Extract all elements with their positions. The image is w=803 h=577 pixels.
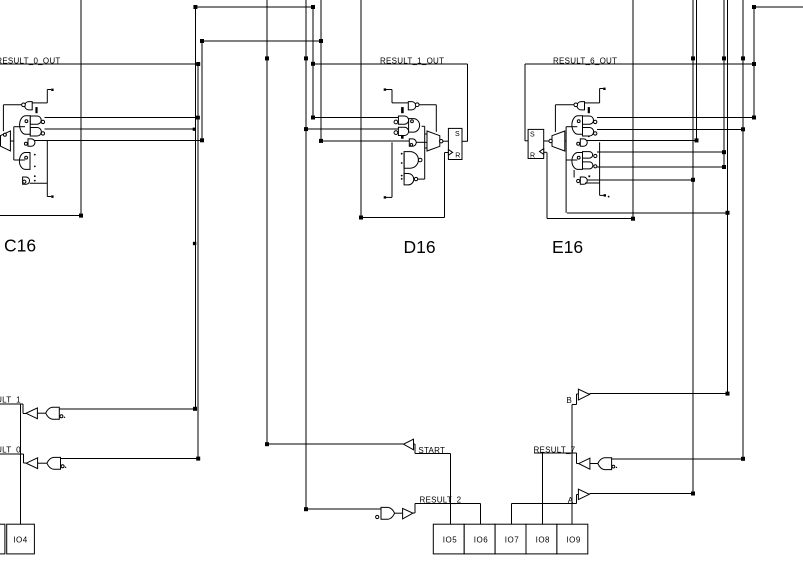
wire RESULT_2 jog vertical [414,503,416,513]
wire START row y=444.2 [267,443,404,445]
wire E16 G1 input [585,102,600,104]
svg-text:D16: D16 [404,237,436,257]
wire RESULT_6_OUT horizontal y=64 [525,63,754,65]
wire C16 G1 input [32,102,47,104]
IO8 pad box [526,524,557,554]
D16 mux [427,131,440,151]
svg-text:IO8: IO8 [536,536,550,545]
vertical wire x=467.5 D16 S output riser [467,64,469,141]
wire START label stub [414,443,416,445]
wire D16 LG2 output [418,178,425,180]
wire buffer to OR RESULT_1 [37,412,45,414]
wire E16 row6 output y=179.8 [585,179,693,181]
wire C16 row3 output y=140.3 [31,139,202,141]
OR gate RESULT_7 row [598,458,612,470]
E16 row3 gate [580,139,587,146]
wire RESULT_1 buffer jog [22,404,24,413]
C16 row6 gate [23,177,30,184]
wire C16 row2 output y=129.1 [45,128,196,130]
vertical wire x=525 E16 S input riser [524,64,526,141]
wire horizontal y=41 between C16 and D16 [202,40,321,42]
bottom-left gates [26,389,617,519]
E16 bottom bracket [599,142,601,195]
wire E16 R output [544,151,547,153]
E16 lower big gate [572,153,583,170]
svg-text:RESULT_1: RESULT_1 [0,396,21,405]
wire E16 G1 to mux vertical [554,105,556,132]
C16 inverter G1 [25,102,33,110]
vertical wire x=81 C16 right border [80,0,82,216]
D16 rows to mux vertical [424,126,426,179]
wire OR to buffer RESULT_2 [395,512,403,514]
IO7 pad box [495,524,526,554]
vertical wire x=724 [723,0,725,167]
wire D16 S output [462,140,468,142]
svg-text:IO6: IO6 [474,536,488,545]
svg-text:RESULT_0_OUT: RESULT_0_OUT [0,56,61,65]
C16 mux stub [10,140,13,142]
wire D16 big gate output [422,125,425,127]
wire top-right horizontal y=7 to edge [754,6,803,8]
wire IO7 link y=503.3 [511,502,576,504]
D16 LG1 stub dots [401,153,403,155]
E16 S/R flip-flop box [528,129,544,158]
E16 top bracket [599,89,601,103]
wire A buffer input jog [576,495,578,504]
wire RESULT_7 to IO8 riser [542,453,544,524]
C16 row3 gate [28,139,35,146]
svg-text:IO5: IO5 [443,536,457,545]
D16 inverter G1 [408,102,416,110]
buffer RESULT_0 row (tip left) [26,458,37,469]
vertical wire x=321 [320,0,322,141]
C16 top bracket [46,90,48,103]
vertical wire x=195 [194,7,196,409]
svg-text:R: R [530,153,535,160]
buffer RESULT_1 row (tip left) [26,408,37,419]
vertical wire x=743 [742,0,744,459]
OR RESULT_1 lower input bubble [60,415,63,418]
E16 lower-left vertical [573,170,575,178]
wire B buffer output y=393.6 [590,393,728,395]
svg-text:IO9: IO9 [566,536,580,545]
svg-text:C16: C16 [4,236,36,256]
E16 row4 gate [583,152,593,159]
wire C16 row1 output y=117.7 [45,117,200,119]
wire E16 S input [525,140,528,142]
OR gate RESULT_2 row [381,507,395,519]
svg-text:R: R [455,153,460,160]
E16 row6 gate [580,177,587,184]
vertical wire x=313 [312,7,314,118]
wire D16 row1 input y=117.7 [313,117,398,119]
IO5 pad box [433,524,464,554]
C16 rows big gate [20,116,31,135]
D16 rows big gate [409,119,420,133]
D16 top bracket [384,88,386,90]
E16 inner vertical to bottom [565,127,567,213]
wire D16 mux to box [443,140,449,142]
C16 row1 gate [30,116,41,124]
wire D16 row3 input y=140.6 [321,140,409,142]
wire RESULT_2 row input y=508.3 [306,508,381,510]
wire RESULT_1 label underline [0,403,23,405]
E16 row5 gate [583,162,593,169]
D16 I-bar [401,107,404,113]
C16 inner vertical [13,127,15,160]
vertical wire x=727.5 [727,0,729,394]
D16 lower gate LG1 [404,152,418,169]
C16 LG1 stub dots [34,154,36,156]
wire RESULT_1_OUT horizontal y=64 [313,63,468,65]
vertical wire x=198 [197,64,199,459]
C16 bottom bracket [46,140,48,196]
svg-text:RESULT_0: RESULT_0 [0,445,21,454]
OR gate RESULT_0 row [47,457,61,469]
svg-text:S: S [530,132,535,139]
D16 I-bar2 [401,135,404,139]
wire C16 row6 output [30,182,48,184]
wire E16 row4 output y=152.2 [597,151,724,153]
wire RESULT_7 jog stub [576,463,578,465]
wire D16 row2 input y=129.1 [306,128,398,130]
wire B buffer input jog [576,394,578,404]
buffer A [578,489,589,499]
wire D16 R riser x=444.6 [444,153,446,218]
wire RESULT_7 label y=452.9 [534,452,577,454]
wire RESULT_0 buffer jog [23,454,25,463]
wire RESULT_0_OUT horizontal y=64 [0,63,198,65]
wire D16 bottom border y=217.5 [361,217,445,219]
wire START to IO5 riser [450,453,452,524]
buffer B [578,389,589,400]
wire E16 row3 output y=140.4 [585,139,697,141]
wire RESULT_0 row input y=458.6 [61,458,199,460]
E16 row1 gate [583,116,594,124]
wire buffer to OR RESULT_7 [590,463,598,465]
net labels [0,56,617,505]
wire E16 R riser x=546.8 [546,152,548,218]
wire RESULT_2 to IO6 riser [480,503,482,524]
wire RESULT_1/RESULT_0 to IO4 vertical x=20.7 [20,404,22,524]
OR gate RESULT_1 row [46,407,60,419]
svg-text:A: A [568,496,574,505]
vertical wire x=754 [753,7,755,118]
wire net RESULT_1 top horizontal y=7 [195,6,313,8]
C16 row2 gate [30,128,41,137]
D16 LG2 stub dots [401,175,403,177]
D16 S/R flip-flop box [448,128,462,159]
wire START label y=453.4 [415,452,451,454]
vertical wire x=306 [305,0,307,509]
OR RESULT_2 lower input bubble [376,515,379,518]
E16 mux [552,131,565,151]
E16 mux stub [565,140,566,142]
wire C16 big gate output [14,126,25,128]
svg-text:RESULT_1_OUT: RESULT_1_OUT [380,56,444,65]
C16 I-bar [35,107,37,113]
buffer RESULT_7 row (tip left) [579,458,590,469]
IO4 pad box [7,524,35,554]
IO9 pad box [557,524,588,554]
wire RESULT_1 row input y=408.5 [59,408,195,410]
CLUSTER E16 [525,88,609,213]
buffer RESULT_2 [403,508,413,519]
wire IO7 riser x=511.4 [510,503,512,524]
wire C16 bottom border y=215.6 [0,215,81,217]
E16 rows big gate [572,116,583,135]
wire START label jog vertical [414,444,416,453]
C16 row6 stub dots [34,175,36,177]
D16 row1 gate [394,120,398,124]
vertical wire x=267 [266,0,268,444]
wire C16 G1 output [3,104,21,106]
svg-text:START: START [418,446,445,455]
IO3 pad box (clipped) [0,524,5,554]
wire E16 big gate output [566,126,577,128]
wire buffer to OR RESULT_0 [38,462,47,464]
D16 row2 gate [394,131,398,135]
IO6 pad box [464,524,495,554]
OR RESULT_0 lower input bubble [61,465,64,468]
E16 small marks [588,136,590,138]
wire D16 G1 output [419,104,436,106]
wire RESULT_2 buffer stub [413,512,415,514]
wire E16 long bottom y=212.8 [567,212,728,214]
OR RESULT_7 lower input bubble [612,465,615,468]
svg-text:RESULT_2: RESULT_2 [420,496,462,505]
D16 row3 gate [409,139,416,146]
vertical wire x=633 E16 right border [632,0,634,219]
C16 mux [1,131,11,151]
wire RESULT_7 row input y=458.5 [612,458,743,460]
IO pad boxes [0,524,588,554]
vertical wire x=202 [201,41,203,140]
svg-text:IO4: IO4 [13,536,27,545]
buffer START row (tip left) [404,439,414,450]
D16 lower gate LG2 [404,174,414,185]
wire E16 row6 output [585,182,600,184]
svg-text:E16: E16 [552,237,583,257]
svg-text:IO7: IO7 [505,536,519,545]
wire D16 row3 output [416,141,427,143]
E16 inverter G1 [577,102,585,110]
E16 row2 gate [583,128,594,137]
wire B/A/IO9 vertical x=572.2 [571,405,573,525]
D16 bottom bracket [391,142,393,197]
wire E16 row5 output y=167 [597,166,724,168]
wire RESULT_0 label underline [0,453,24,455]
wire RESULT_2 label y=503.2 [415,502,480,504]
wire E16 R net bottom y=218.7 [547,218,633,220]
svg-text:RESULT_6_OUT: RESULT_6_OUT [553,56,617,65]
vertical wire x=693 [692,0,694,494]
vertical wire x=696.5 [696,0,698,140]
D16 lower-left vertical [403,153,405,180]
wire E16 mux to box [544,140,549,142]
C16 lower big gate LG1 [19,153,30,170]
wire RESULT_7 jog vertical [575,453,577,464]
wire E16 lower big gate output [566,159,577,161]
CLUSTER D16 [384,88,468,198]
E16 I-bar [588,107,590,113]
wire E16 row1 output y=117.6 [597,117,754,119]
CLUSTER C16 [1,89,54,198]
svg-text:S: S [455,131,460,138]
wire C16 LG1 output [14,159,25,161]
wire D16 R input [445,152,449,154]
wire C16 G1 to mux vertical [2,105,4,131]
wire D16 G1 input [392,102,408,104]
svg-text:RESULT_7: RESULT_7 [534,445,576,454]
wire D16 G1 to mux vertical [435,105,437,132]
wire A buffer output y=492.7 [589,493,693,495]
svg-text:B: B [567,396,573,405]
vertical wire x=361 D16 left border [360,0,362,218]
wire E16 row2 output y=129.3 [597,128,743,130]
wire E16 G1 output [555,104,574,106]
